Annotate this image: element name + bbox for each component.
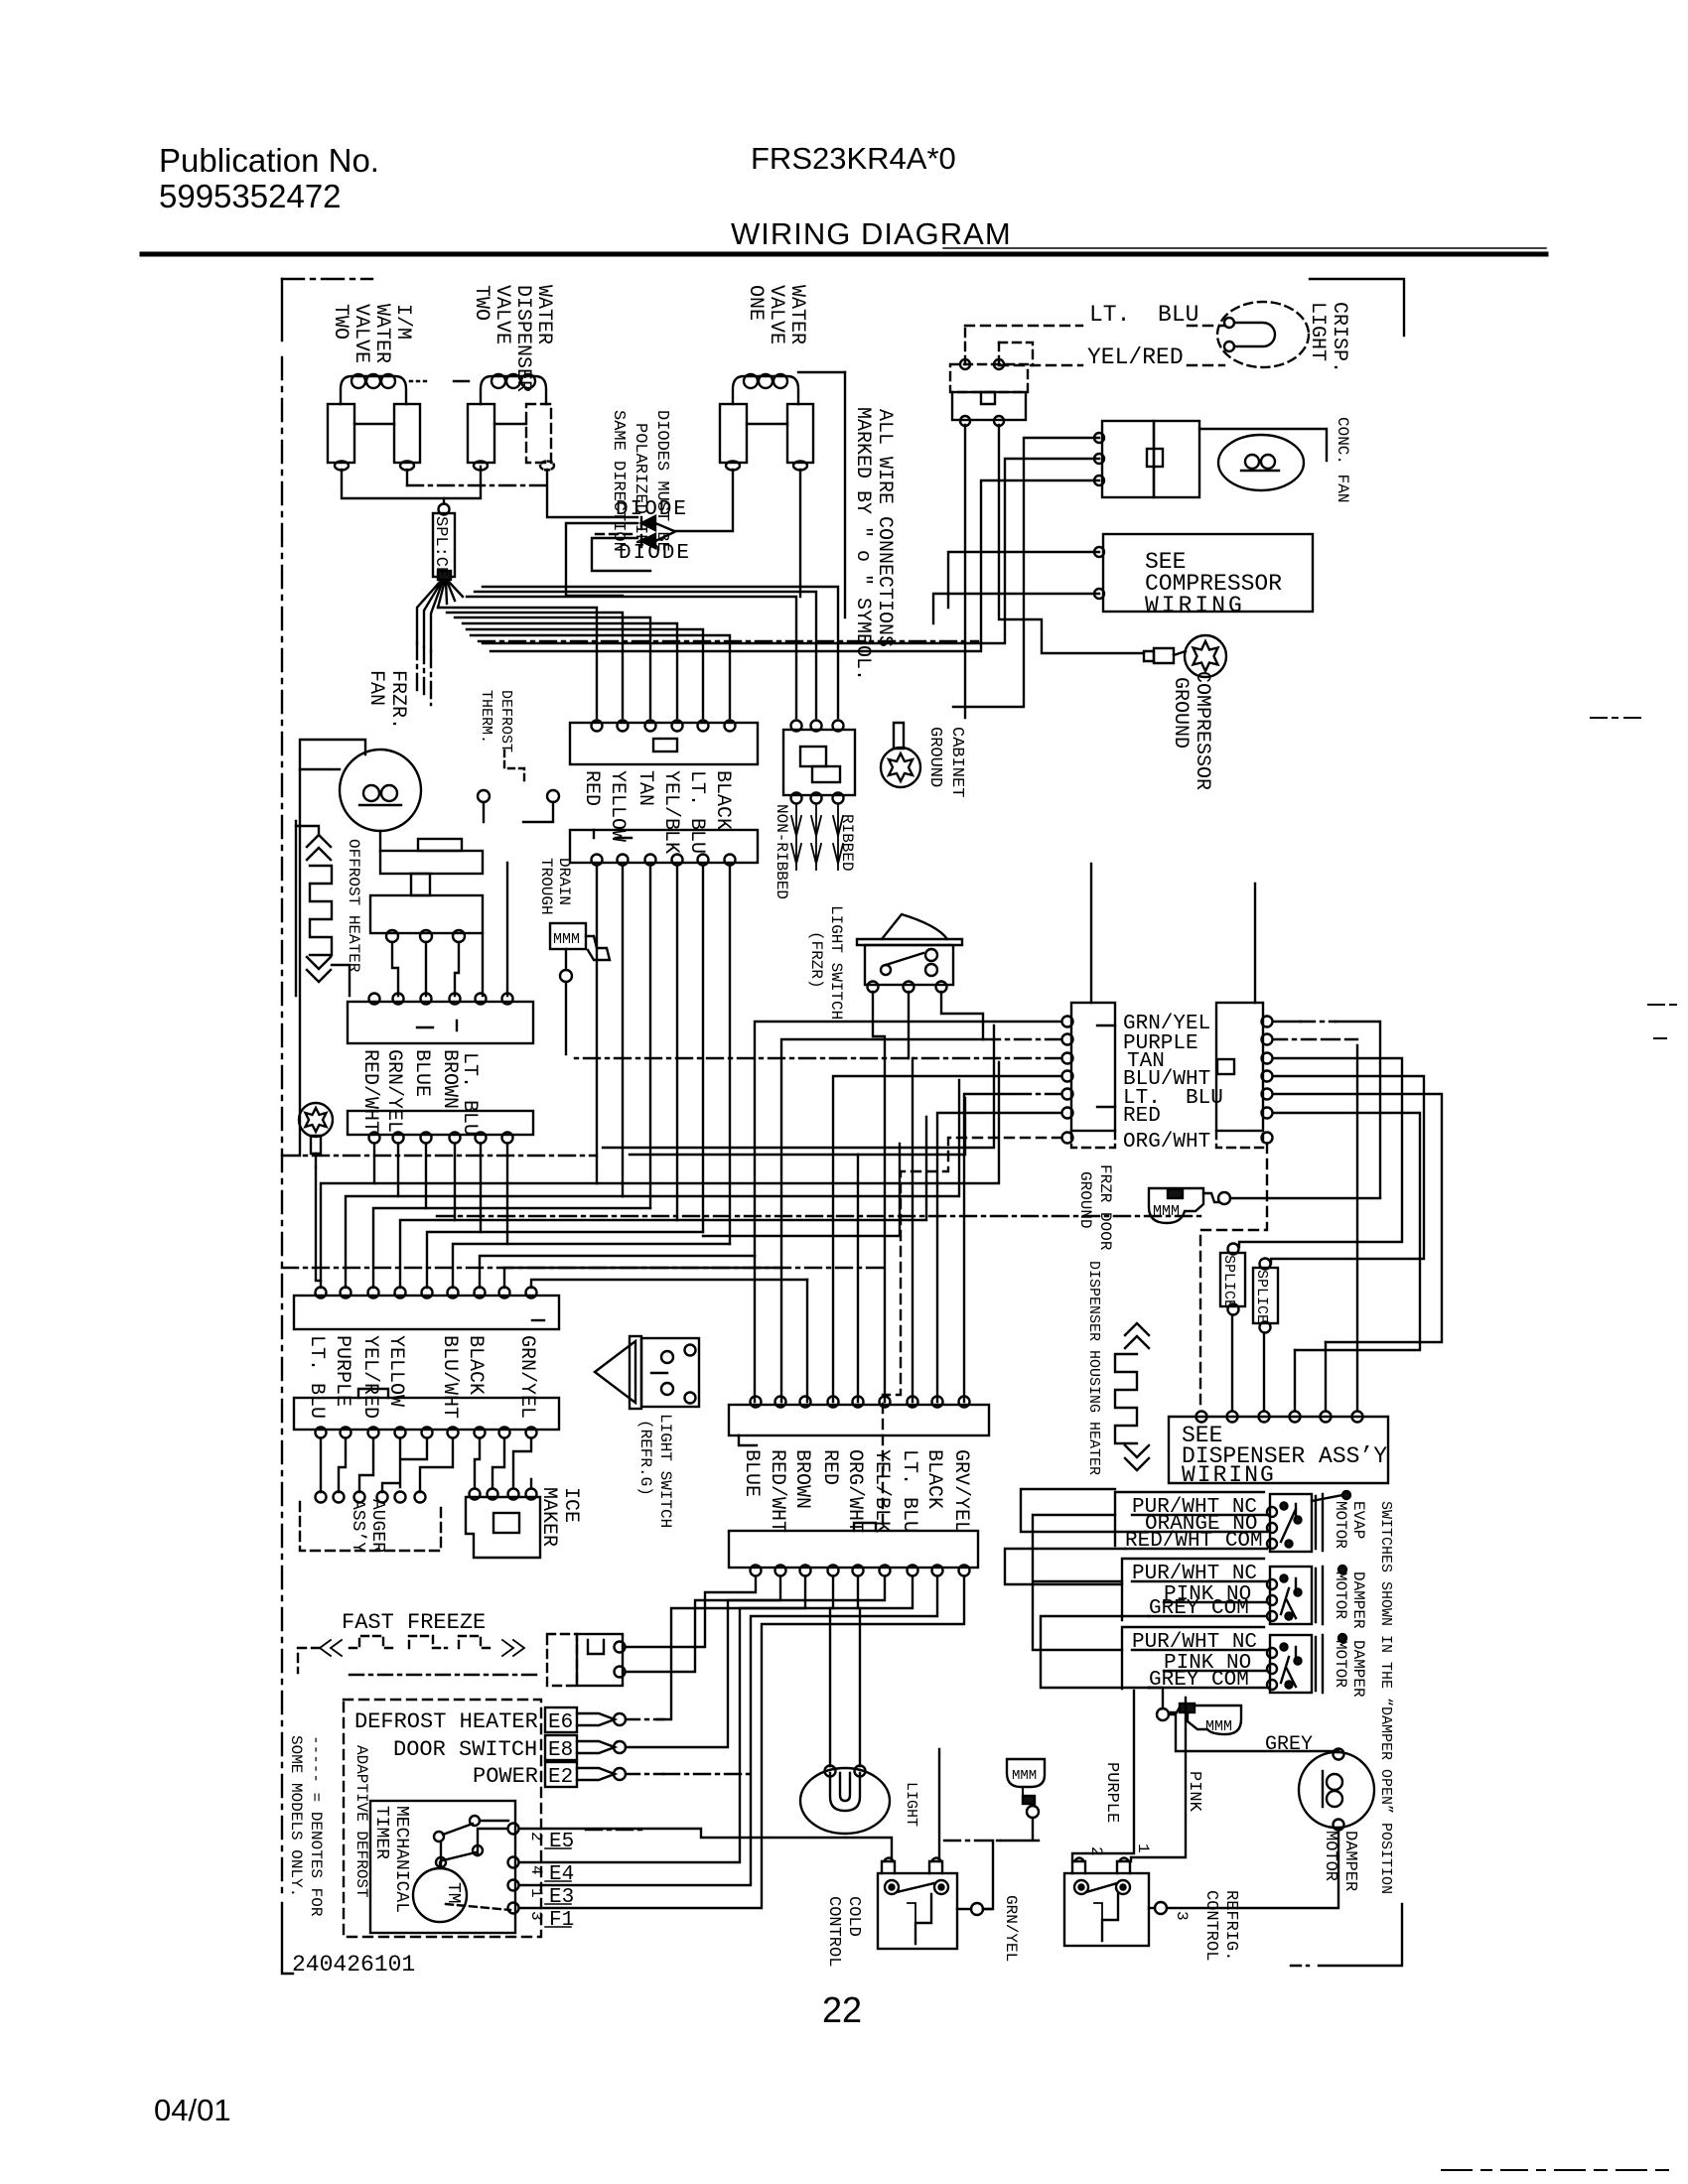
svg-text:MMM: MMM — [1012, 1768, 1037, 1784]
header — [159, 141, 1012, 251]
svg-text:MARKED BY " o " SYMBOL.: MARKED BY " o " SYMBOL. — [851, 407, 874, 681]
wire w2 — [373, 1208, 650, 1288]
wire w13 — [703, 1144, 900, 1236]
long dash-dot horizontals — [282, 1155, 597, 1157]
solenoid coil L2 — [454, 374, 546, 404]
svg-text:BROWN: BROWN — [438, 1049, 461, 1109]
dash-dot long wire in bundle — [479, 640, 978, 642]
wire w43 — [1021, 1489, 1145, 1532]
svg-text:GRN/YEL: GRN/YEL — [382, 1049, 405, 1133]
svg-text:WIRING: WIRING — [1145, 593, 1245, 618]
wire w28 — [483, 863, 507, 996]
wire w31 — [657, 1576, 805, 1719]
wire w29 — [296, 826, 319, 835]
splice fanout wires to bundle — [417, 581, 441, 643]
wire w42 — [1041, 1616, 1149, 1688]
left connector bar 2 — [348, 1111, 533, 1144]
svg-text:1: 1 — [1134, 1843, 1152, 1853]
wire w20 — [565, 982, 567, 1054]
wire w34 — [626, 1576, 885, 1747]
svg-text:VALVE: VALVE — [350, 304, 372, 363]
svg-text:RED/WHT: RED/WHT — [766, 1449, 788, 1533]
svg-text:E4: E4 — [549, 1863, 574, 1886]
svg-text:OFFROST HEATER: OFFROST HEATER — [345, 839, 362, 973]
svg-text:1: 1 — [527, 1888, 545, 1898]
damper mmm resistor — [1157, 1704, 1241, 1735]
light switch (frzr) — [807, 905, 962, 1020]
svg-text:PURPLE: PURPLE — [1102, 1762, 1121, 1823]
bar3 labels — [305, 1335, 538, 1419]
cascade horizontals to bar3 — [321, 1183, 597, 1288]
grey wire — [1169, 1714, 1338, 1751]
svg-text:RED: RED — [1123, 1105, 1161, 1128]
wire w32 — [830, 1576, 833, 1766]
svg-text:ICE: ICE — [559, 1487, 582, 1523]
svg-text:NON-RIBBED: NON-RIBBED — [773, 804, 790, 899]
svg-text:BROWN: BROWN — [790, 1449, 813, 1509]
wire w15 — [437, 1215, 1200, 1217]
switches shown note — [1377, 1501, 1394, 1894]
svg-text:FRS23KR4A*0: FRS23KR4A*0 — [751, 141, 956, 176]
wire w1 — [346, 1196, 623, 1288]
left connector bar 3 — [294, 1288, 559, 1330]
svg-text:DOOR SWITCH: DOOR SWITCH — [393, 1737, 537, 1762]
wire w5 — [453, 1244, 730, 1288]
central long verticals to bar A — [755, 1256, 807, 1402]
svg-text:YEL/BLK: YEL/BLK — [659, 770, 682, 854]
wire w12 — [677, 1117, 926, 1220]
svg-text:RED/WHT: RED/WHT — [358, 1049, 381, 1133]
wire w17 — [983, 1038, 1061, 1040]
defrost heater row E6 — [354, 1707, 663, 1734]
wire w39 — [1131, 1698, 1186, 1861]
svg-text:WATER: WATER — [785, 285, 808, 344]
door wire name labels — [1123, 1013, 1223, 1154]
svg-text:GROUND: GROUND — [925, 727, 944, 787]
center bar labels — [740, 1449, 972, 1533]
damper motor — [1299, 1749, 1374, 1892]
svg-text:TM: TM — [443, 1882, 463, 1904]
splice box — [431, 504, 455, 581]
svg-text:E3: E3 — [549, 1886, 574, 1909]
svg-text:DAMPER: DAMPER — [1340, 1831, 1359, 1891]
svg-text:5995352472: 5995352472 — [159, 178, 342, 214]
conc fan block — [1094, 421, 1199, 497]
svg-text:VALVE: VALVE — [765, 285, 787, 344]
top wire bundle horizontals — [438, 608, 597, 718]
left connector bar 1 — [348, 994, 533, 1044]
lower center connector bar A — [729, 1397, 989, 1446]
svg-text:FRZR.: FRZR. — [386, 670, 409, 730]
wire w3 — [400, 1220, 677, 1288]
svg-text:CONC. FAN: CONC. FAN — [1334, 417, 1351, 502]
purple / pink labels — [1102, 1762, 1203, 1823]
water valve one labels — [744, 285, 808, 344]
svg-text:SAME DIRECTION: SAME DIRECTION — [609, 410, 628, 552]
svg-text:MOTOR: MOTOR — [1332, 1640, 1349, 1688]
wire w40 — [944, 1840, 1001, 1842]
bar1 labels — [358, 1049, 481, 1136]
wire w24 — [964, 1094, 1013, 1402]
wire w7 — [504, 1268, 781, 1288]
svg-text:MMM: MMM — [553, 931, 580, 948]
wire w9 — [630, 1098, 965, 1155]
ice maker — [466, 1438, 582, 1558]
refrig control feeds — [1072, 1691, 1134, 1861]
damper motor switch row 2 — [1122, 1559, 1367, 1629]
svg-text:YEL/RED: YEL/RED — [1087, 344, 1184, 370]
diagram border marks — [282, 279, 1404, 1966]
svg-text:E8: E8 — [548, 1739, 573, 1762]
wire w35 — [519, 1576, 913, 1862]
defrost heater zigzag — [296, 821, 362, 996]
svg-text:YELLOW: YELLOW — [606, 770, 629, 842]
svg-text:TWO: TWO — [470, 285, 492, 321]
defrost heater to bar1 — [332, 965, 350, 996]
drain trough resistor — [537, 858, 610, 982]
crisper connector dashed box — [950, 326, 1033, 426]
svg-text:SWITCHES SHOWN IN THE “DAMPER: SWITCHES SHOWN IN THE “DAMPER OPEN” POSI… — [1377, 1501, 1394, 1894]
svg-text:DISPENSER HOUSING HEATER: DISPENSER HOUSING HEATER — [1085, 1261, 1102, 1475]
svg-text:ALL WIRE CONNECTIONS: ALL WIRE CONNECTIONS — [873, 409, 896, 647]
svg-text:THERM.: THERM. — [478, 690, 494, 744]
terminal strip B — [570, 830, 758, 866]
svg-text:LIGHT: LIGHT — [903, 1782, 919, 1827]
cold to grn/yel lug wire — [983, 1841, 993, 1909]
svg-text:TAN: TAN — [633, 770, 656, 806]
wire w38 — [586, 1829, 645, 1831]
wire w27 — [941, 992, 983, 1039]
cold control — [824, 1858, 991, 1968]
wire v2 right terminal down to diode — [547, 470, 637, 517]
splice 1 — [1220, 1244, 1245, 1315]
svg-text:FRZR DOOR: FRZR DOOR — [1096, 1164, 1114, 1251]
wire w21 — [912, 1058, 914, 1402]
risers above dispenser box — [1231, 1315, 1233, 1411]
svg-text:SPL:CE: SPL:CE — [431, 516, 450, 577]
svg-text:BLACK: BLACK — [922, 1449, 945, 1509]
frzr ground to bar3 — [316, 1167, 321, 1281]
svg-text:LIGHT SWITCH: LIGHT SWITCH — [827, 905, 845, 1020]
svg-text:----- = DENOTES FOR: ----- = DENOTES FOR — [307, 1735, 325, 1917]
svg-text:WATER: WATER — [370, 304, 393, 363]
power row E2 — [473, 1762, 663, 1789]
svg-text:VALVE: VALVE — [491, 285, 513, 344]
wire dash-dot v1 right to v2 right — [407, 484, 547, 486]
water dispenser valve labels — [470, 285, 555, 392]
bottom mmm resistor — [1007, 1759, 1045, 1818]
svg-text:SPLICE: SPLICE — [1220, 1255, 1237, 1308]
non-ribbed / ribbed labels — [773, 804, 856, 899]
wire w25 — [937, 1113, 1061, 1402]
wire w18 — [781, 1039, 983, 1268]
svg-text:E6: E6 — [548, 1711, 573, 1734]
svg-text:RED: RED — [818, 1449, 841, 1485]
svg-text:CABINET: CABINET — [947, 727, 966, 797]
solenoid coil L1 — [341, 374, 426, 404]
svg-text:BLACK: BLACK — [711, 770, 734, 830]
svg-text:3: 3 — [527, 1911, 545, 1921]
svg-text:TROUGH: TROUGH — [537, 858, 555, 915]
see dispenser assy wiring box — [1169, 1412, 1388, 1489]
svg-text:MOTOR: MOTOR — [1332, 1501, 1349, 1549]
svg-text:ADAPTIVE DEFROST: ADAPTIVE DEFROST — [352, 1745, 370, 1898]
diode junction wires to valve3 — [655, 523, 674, 541]
cabinet ground — [881, 723, 966, 797]
terminal strip A (top) — [570, 721, 758, 765]
scan artifacts right edge — [1442, 718, 1676, 2170]
grn/yel label bottom — [1002, 1895, 1020, 1962]
svg-text:MAKER: MAKER — [537, 1487, 560, 1547]
right column verticals (crisper to lower blocks) — [964, 425, 966, 718]
svg-text:ORG/WHT: ORG/WHT — [1123, 1131, 1210, 1154]
wire w36 — [519, 1576, 937, 1885]
svg-text:LT. BLU: LT. BLU — [685, 770, 708, 854]
left connector bar 4 — [294, 1389, 559, 1438]
svg-text:FAST FREEZE: FAST FREEZE — [342, 1610, 486, 1635]
svg-text:MMM: MMM — [1153, 1203, 1180, 1220]
conc fan motor — [1199, 417, 1351, 502]
wire w16 — [282, 1267, 883, 1269]
wire w46 — [1648, 1005, 1676, 1038]
bar2 bottom stubs joining cascade — [374, 1144, 507, 1244]
compressor ground lug — [1144, 635, 1226, 790]
frzr fan motor — [300, 670, 421, 851]
cold control right post up — [938, 1749, 940, 1861]
light switch frzr bottoms — [873, 992, 885, 1402]
svg-text:GREY: GREY — [1265, 1733, 1313, 1756]
svg-text:ONE: ONE — [744, 285, 767, 321]
title rule — [142, 252, 1546, 257]
wire w30 — [626, 1576, 780, 1672]
wire w10 — [597, 1062, 999, 1183]
wire w19 — [570, 1057, 1061, 1059]
denotes note — [287, 1735, 325, 1917]
valve body V2 (right half dashed) — [468, 404, 554, 471]
frzr ground lug — [299, 1103, 333, 1167]
svg-text:WATER: WATER — [532, 285, 555, 344]
svg-text:GRV/YEL: GRV/YEL — [949, 1449, 972, 1533]
colR right-side wires — [1273, 1022, 1380, 1197]
therm to bar1 — [392, 942, 459, 996]
mechanical timer — [370, 1801, 545, 1933]
central filler cross-wires — [603, 1025, 994, 1148]
svg-text:TIMER: TIMER — [371, 1806, 391, 1859]
E5 to cold control — [519, 1829, 892, 1861]
defrost thermostat — [370, 690, 559, 942]
E2 dashdot — [663, 1773, 751, 1775]
svg-text:LT. BLU: LT. BLU — [898, 1449, 920, 1533]
svg-text:GRN/YEL: GRN/YEL — [1002, 1895, 1020, 1962]
colL feeds from left — [755, 1022, 1061, 1256]
wire w26 — [908, 992, 910, 1058]
wire w33 — [858, 1576, 860, 1766]
all wire connections note — [851, 407, 896, 681]
evap motor switch row — [1115, 1491, 1367, 1553]
svg-text:DAMPER: DAMPER — [1349, 1640, 1367, 1698]
wire w45 — [1442, 2169, 1668, 2171]
dispenser housing heater label — [1085, 1261, 1102, 1475]
freezer light connector — [783, 721, 855, 804]
svg-text:RED: RED — [580, 770, 603, 806]
dispenser heater zigzag — [1115, 1323, 1149, 1470]
svg-text:LIGHT SWITCH: LIGHT SWITCH — [656, 1414, 674, 1528]
damper motor switch row 3 — [1122, 1627, 1367, 1698]
svg-text:TWO: TWO — [329, 304, 352, 340]
wire w41 — [1001, 1818, 1039, 1841]
svg-text:ORG/WHT: ORG/WHT — [843, 1449, 866, 1533]
svg-text:3: 3 — [1173, 1911, 1191, 1921]
svg-text:(REFR.G): (REFR.G) — [636, 1420, 654, 1496]
svg-text:BLUE: BLUE — [410, 1049, 433, 1097]
svg-text:DEFROST: DEFROST — [497, 690, 514, 752]
svg-text:240426101: 240426101 — [292, 1952, 415, 1978]
svg-text:CRISP.: CRISP. — [1328, 302, 1350, 373]
svg-text:MOTOR: MOTOR — [1332, 1571, 1349, 1619]
svg-text:PINK: PINK — [1185, 1771, 1203, 1813]
strip A wire labels — [580, 770, 734, 854]
valve body V1 — [328, 404, 420, 471]
svg-text:DRAIN: DRAIN — [555, 858, 573, 905]
wire splice top — [443, 498, 445, 503]
org/wht dashed run to lower connector — [883, 1138, 1061, 1526]
wire w6 — [480, 1256, 755, 1288]
switch row left rail extensions — [1005, 1549, 1125, 1584]
svg-text:YEL/BLK: YEL/BLK — [870, 1449, 893, 1533]
svg-text:E5: E5 — [549, 1831, 574, 1853]
door connector column R — [1216, 1003, 1273, 1148]
svg-text:GROUND: GROUND — [1076, 1171, 1094, 1229]
wire w11 — [623, 1080, 959, 1196]
svg-text:MECHANICAL: MECHANICAL — [391, 1806, 411, 1913]
diode 2 — [619, 534, 691, 565]
fan left wire down border — [299, 769, 301, 1156]
svg-text:MOTOR: MOTOR — [1321, 1831, 1339, 1881]
svg-text:EVAP: EVAP — [1349, 1501, 1367, 1539]
svg-text:WIRING DIAGRAM: WIRING DIAGRAM — [731, 216, 1012, 251]
crisper light — [1217, 302, 1350, 373]
svg-text:4: 4 — [527, 1865, 545, 1875]
svg-text:CONTROL: CONTROL — [824, 1896, 843, 1967]
svg-text:BLACK: BLACK — [464, 1335, 487, 1395]
auger assy dashed box — [300, 1499, 441, 1553]
svg-text:BLUE: BLUE — [740, 1449, 763, 1497]
splice 2 — [1253, 1259, 1278, 1333]
part number — [282, 1903, 415, 1978]
wire w23 — [1013, 1093, 1061, 1095]
footer — [154, 1989, 862, 2127]
wire w37 — [519, 1576, 964, 1908]
svg-text:REFRIG.: REFRIG. — [1221, 1890, 1240, 1961]
barB bottom cascades — [626, 1576, 756, 1647]
svg-text:DAMPER: DAMPER — [1349, 1571, 1367, 1629]
svg-text:04/01: 04/01 — [154, 2093, 231, 2127]
svg-text:POWER: POWER — [473, 1764, 538, 1789]
svg-text:COMPRESSOR: COMPRESSOR — [1191, 671, 1213, 790]
frzr door ground wire — [1230, 1197, 1380, 1199]
svg-text:LT. BLU: LT. BLU — [1089, 302, 1198, 328]
water valve I/M labels — [329, 304, 414, 363]
wire w8 — [531, 1280, 807, 1288]
svg-text:GROUND: GROUND — [1169, 677, 1192, 749]
svg-text:DEFROST HEATER: DEFROST HEATER — [354, 1709, 538, 1734]
svg-text:E2: E2 — [548, 1766, 573, 1789]
frzr door ground resistor — [1076, 1164, 1230, 1251]
svg-text:BLU/WHT: BLU/WHT — [438, 1335, 461, 1419]
solenoid coil L3 — [733, 372, 845, 404]
svg-text:LT. BLU: LT. BLU — [305, 1335, 328, 1419]
refrig light — [800, 1766, 919, 1835]
light switch (refrig) — [595, 1336, 699, 1528]
svg-text:F1: F1 — [549, 1909, 574, 1932]
door switch row E8 — [393, 1735, 626, 1762]
svg-text:LT. BLU: LT. BLU — [458, 1052, 481, 1136]
svg-text:Publication No.: Publication No. — [159, 142, 379, 179]
diodes note — [609, 410, 671, 552]
see compressor wiring box — [1094, 534, 1313, 618]
svg-text:ASS’Y: ASS’Y — [348, 1499, 367, 1553]
svg-text:GRN/YEL: GRN/YEL — [515, 1335, 538, 1419]
svg-text:CONTROL: CONTROL — [1201, 1890, 1220, 1961]
strip2 verticals down to cascade — [597, 866, 730, 1244]
wire w4 — [427, 1232, 703, 1288]
diode 1 — [616, 498, 688, 530]
valve body V3 — [720, 404, 813, 471]
E5 E4 E3 E1 labels — [549, 1831, 574, 1932]
lower center connector bar B — [729, 1523, 978, 1576]
svg-text:LIGHT: LIGHT — [1306, 302, 1329, 361]
door connector column L — [1062, 1003, 1116, 1148]
wire w22 — [833, 1076, 1061, 1402]
pur/wht bus on switch rows — [1033, 1515, 1122, 1650]
svg-text:2: 2 — [527, 1832, 545, 1842]
svg-text:YEL/RED: YEL/RED — [358, 1335, 381, 1419]
svg-text:PURPLE: PURPLE — [331, 1335, 353, 1407]
svg-text:(FRZR): (FRZR) — [807, 931, 825, 989]
svg-text:I/M: I/M — [391, 304, 414, 340]
row3 com to mmm2 — [1149, 1688, 1163, 1708]
wire valve1 to splice — [342, 467, 481, 498]
svg-text:WIRING: WIRING — [1182, 1462, 1276, 1488]
svg-text:22: 22 — [822, 1989, 862, 2030]
svg-text:SOME MODELS ONLY.: SOME MODELS ONLY. — [287, 1735, 305, 1897]
svg-text:AUGER: AUGER — [367, 1499, 387, 1553]
auger assy wires — [321, 1438, 453, 1492]
adaptive defrost dashed box — [344, 1700, 541, 1937]
fast freeze — [298, 1610, 626, 1686]
damper motor bottom wire — [1167, 1831, 1338, 1908]
svg-text:MMM: MMM — [1205, 1718, 1232, 1735]
refrig control — [1064, 1843, 1240, 1961]
svg-text:COLD: COLD — [844, 1896, 863, 1937]
svg-text:FAN: FAN — [364, 670, 387, 706]
svg-text:SPLICE: SPLICE — [1253, 1270, 1270, 1323]
wire w44 — [1591, 717, 1640, 719]
wire w14 — [857, 1155, 859, 1402]
ribbed wire arrows — [791, 804, 843, 870]
